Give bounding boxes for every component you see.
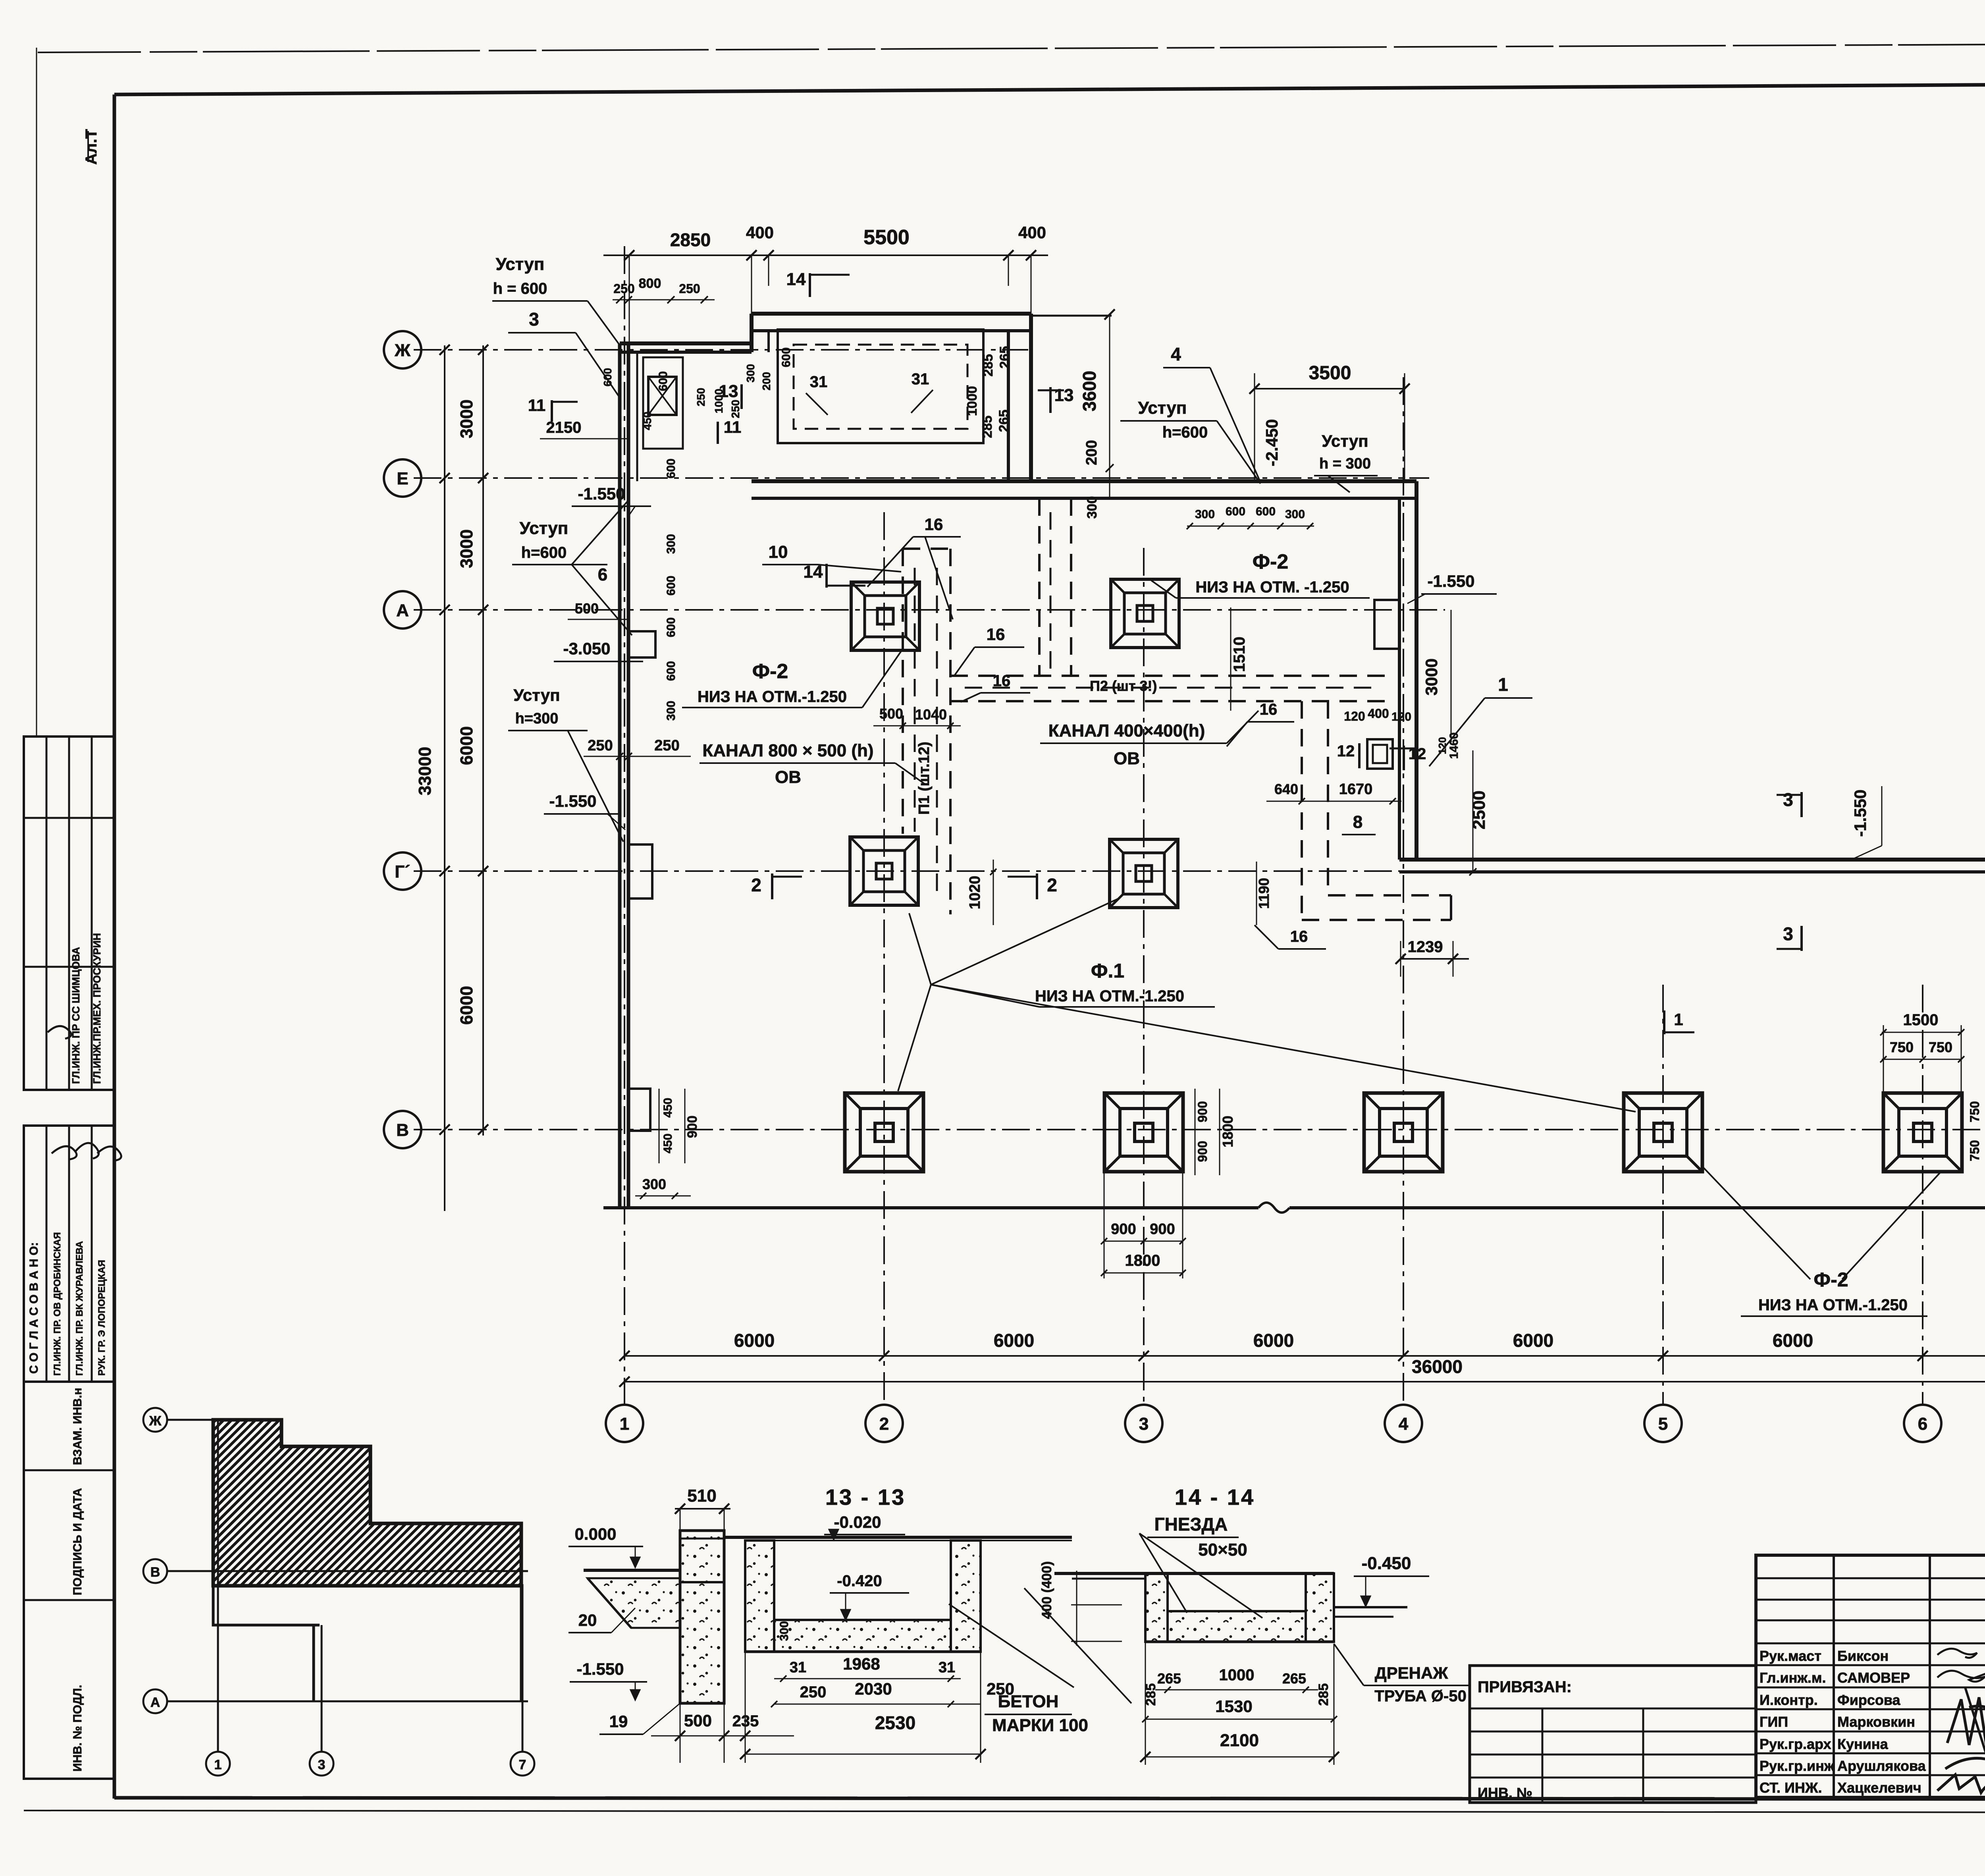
svg-text:НИЗ НА ОТМ.-1.250: НИЗ НА ОТМ.-1.250 (1035, 987, 1184, 1005)
svg-text:Хацкелевич: Хацкелевич (1837, 1780, 1921, 1796)
svg-text:Уступ: Уступ (513, 686, 560, 704)
svg-text:ГНЕЗДА: ГНЕЗДА (1154, 1514, 1228, 1535)
svg-text:640: 640 (1274, 781, 1298, 797)
svg-text:-0.420: -0.420 (837, 1572, 882, 1590)
svg-text:3: 3 (529, 309, 539, 330)
svg-text:А: А (150, 1695, 160, 1710)
svg-text:600: 600 (665, 576, 678, 596)
svg-text:10: 10 (769, 542, 788, 562)
svg-text:900: 900 (1195, 1141, 1210, 1162)
svg-text:3: 3 (1139, 1414, 1149, 1434)
svg-text:250: 250 (613, 281, 634, 296)
svg-text:РУК. ГР. Э ЛОПОРЕЦКАЯ: РУК. ГР. Э ЛОПОРЕЦКАЯ (96, 1260, 107, 1376)
svg-text:33000: 33000 (415, 747, 435, 795)
svg-text:В: В (150, 1565, 160, 1580)
svg-text:600: 600 (780, 347, 793, 367)
svg-text:6000: 6000 (1253, 1330, 1294, 1351)
svg-text:6: 6 (1918, 1414, 1927, 1434)
svg-text:250: 250 (588, 737, 613, 754)
svg-text:ГЛ.ИНЖ. ПР. ВК ЖУРАВЛЕВА: ГЛ.ИНЖ. ПР. ВК ЖУРАВЛЕВА (74, 1241, 85, 1376)
svg-text:500: 500 (879, 706, 903, 722)
svg-text:-0.020: -0.020 (834, 1513, 881, 1531)
svg-text:1800: 1800 (1220, 1116, 1236, 1147)
svg-text:11: 11 (528, 396, 545, 415)
svg-text:Кунина: Кунина (1837, 1736, 1889, 1752)
svg-text:6000: 6000 (457, 726, 476, 765)
svg-text:600: 600 (601, 368, 614, 387)
svg-text:600: 600 (665, 459, 678, 478)
svg-text:750: 750 (1968, 1101, 1982, 1122)
svg-text:285: 285 (1316, 1683, 1331, 1706)
svg-text:31: 31 (790, 1659, 806, 1676)
svg-text:265: 265 (1282, 1670, 1306, 1687)
svg-text:250: 250 (800, 1683, 827, 1701)
svg-text:7: 7 (519, 1757, 526, 1772)
svg-text:ПОДПИСЬ И ДАТА: ПОДПИСЬ И ДАТА (71, 1488, 84, 1595)
svg-text:САМОВЕР: САМОВЕР (1837, 1670, 1910, 1686)
svg-text:900: 900 (1195, 1101, 1210, 1122)
svg-text:120: 120 (1391, 710, 1411, 723)
svg-text:6000: 6000 (734, 1330, 775, 1351)
svg-text:4: 4 (1171, 344, 1181, 364)
svg-text:31: 31 (810, 373, 828, 391)
svg-text:КАНАЛ 800 × 500 (h): КАНАЛ 800 × 500 (h) (702, 741, 873, 760)
svg-text:НИЗ НА ОТМ.-1.250: НИЗ НА ОТМ.-1.250 (698, 688, 847, 706)
svg-text:h=600: h=600 (521, 544, 567, 561)
svg-text:ОВ: ОВ (775, 767, 801, 787)
svg-text:2: 2 (879, 1414, 889, 1434)
svg-text:Биксон: Биксон (1837, 1648, 1889, 1664)
svg-text:2030: 2030 (855, 1679, 892, 1698)
svg-text:200: 200 (1083, 440, 1100, 465)
svg-text:800: 800 (639, 276, 661, 291)
svg-text:3: 3 (318, 1757, 326, 1772)
svg-text:Уступ: Уступ (1138, 398, 1187, 418)
svg-text:750: 750 (1968, 1140, 1982, 1161)
svg-text:6000: 6000 (457, 986, 476, 1025)
svg-text:250: 250 (695, 388, 707, 407)
svg-text:265: 265 (996, 410, 1012, 432)
svg-text:13: 13 (1054, 386, 1074, 405)
svg-text:h = 300: h = 300 (1319, 455, 1371, 472)
svg-text:1020: 1020 (967, 876, 983, 910)
svg-text:300: 300 (778, 1621, 791, 1641)
svg-text:300: 300 (665, 701, 678, 721)
svg-text:5500: 5500 (863, 226, 910, 249)
svg-text:600: 600 (1226, 505, 1245, 518)
svg-text:12: 12 (1337, 742, 1355, 760)
svg-text:285: 285 (981, 354, 996, 377)
svg-text:31: 31 (912, 370, 929, 388)
svg-text:900: 900 (1111, 1221, 1136, 1238)
svg-text:1: 1 (1674, 1010, 1683, 1029)
svg-text:Уступ: Уступ (520, 519, 569, 538)
svg-text:Ж: Ж (149, 1413, 162, 1429)
svg-text:3600: 3600 (1079, 371, 1100, 411)
svg-text:300: 300 (665, 534, 678, 554)
svg-text:Фирсова: Фирсова (1837, 1692, 1901, 1708)
svg-text:19: 19 (609, 1712, 628, 1731)
svg-text:14 - 14: 14 - 14 (1175, 1485, 1255, 1510)
svg-text:Гл.инж.м.: Гл.инж.м. (1760, 1670, 1826, 1686)
svg-text:ГИП: ГИП (1760, 1714, 1788, 1730)
svg-text:-3.050: -3.050 (563, 639, 610, 658)
svg-text:300: 300 (1285, 508, 1305, 521)
svg-text:1: 1 (214, 1757, 222, 1772)
svg-text:1: 1 (1498, 674, 1508, 695)
svg-text:Уступ: Уступ (496, 255, 545, 274)
svg-text:6000: 6000 (1773, 1330, 1813, 1351)
svg-text:3: 3 (1783, 789, 1793, 810)
svg-text:6000: 6000 (994, 1330, 1034, 1351)
svg-text:ИНВ. № ПОДЛ.: ИНВ. № ПОДЛ. (71, 1685, 84, 1772)
svg-text:Ф-2: Ф-2 (1813, 1269, 1848, 1291)
svg-text:И.контр.: И.контр. (1760, 1692, 1818, 1708)
svg-text:5: 5 (1658, 1414, 1668, 1434)
svg-text:1000: 1000 (1219, 1666, 1255, 1684)
svg-text:Ф-2: Ф-2 (1253, 550, 1289, 573)
svg-text:ДРЕНАЖ: ДРЕНАЖ (1375, 1664, 1449, 1682)
svg-text:Ж: Ж (394, 341, 410, 360)
svg-text:2850: 2850 (670, 229, 711, 250)
svg-text:ТРУБА Ø-50: ТРУБА Ø-50 (1374, 1687, 1467, 1705)
svg-text:4: 4 (1399, 1414, 1409, 1434)
svg-text:600: 600 (665, 661, 678, 681)
svg-text:ИНВ. №: ИНВ. № (1478, 1785, 1532, 1801)
svg-text:400: 400 (746, 223, 774, 242)
svg-text:6000: 6000 (1513, 1330, 1553, 1351)
svg-text:1670: 1670 (1339, 781, 1373, 798)
svg-text:В: В (396, 1120, 409, 1140)
svg-text:Е: Е (397, 469, 408, 488)
svg-text:ГЛ.ИНЖ. ПР. ОВ ДРОБИНСКАЯ: ГЛ.ИНЖ. ПР. ОВ ДРОБИНСКАЯ (52, 1232, 63, 1376)
svg-text:300: 300 (1085, 496, 1100, 519)
svg-text:600: 600 (1256, 505, 1276, 518)
svg-text:Г´: Г´ (395, 862, 410, 881)
svg-text:1000: 1000 (965, 386, 980, 416)
svg-text:500: 500 (684, 1711, 712, 1730)
svg-text:120: 120 (1344, 709, 1365, 723)
svg-text:265: 265 (1157, 1670, 1181, 1687)
svg-text:БЕТОН: БЕТОН (998, 1692, 1059, 1711)
svg-text:500: 500 (575, 600, 599, 617)
svg-text:НИЗ НА ОТМ. -1.250: НИЗ НА ОТМ. -1.250 (1195, 578, 1349, 596)
svg-text:-1.550: -1.550 (1851, 789, 1869, 837)
svg-text:285: 285 (980, 416, 995, 438)
svg-text:МАРКИ 100: МАРКИ 100 (992, 1716, 1088, 1735)
svg-text:11: 11 (724, 418, 741, 436)
svg-text:НИЗ НА ОТМ.-1.250: НИЗ НА ОТМ.-1.250 (1758, 1296, 1908, 1314)
svg-text:А: А (396, 601, 409, 620)
svg-text:Рук.гр.арх: Рук.гр.арх (1760, 1736, 1831, 1752)
svg-text:510: 510 (687, 1486, 716, 1506)
svg-text:16: 16 (993, 672, 1011, 690)
svg-text:6: 6 (598, 565, 607, 584)
svg-text:16: 16 (925, 515, 943, 534)
svg-text:ПРИВЯЗАН:: ПРИВЯЗАН: (1478, 1678, 1572, 1696)
svg-text:-1.550: -1.550 (1427, 572, 1474, 590)
svg-text:ВЗАМ. ИНВ.н: ВЗАМ. ИНВ.н (71, 1388, 84, 1465)
svg-text:Арушлякова: Арушлякова (1837, 1758, 1926, 1774)
svg-text:1040: 1040 (915, 706, 947, 723)
svg-text:2500: 2500 (1469, 791, 1489, 829)
svg-text:-2.450: -2.450 (1262, 419, 1281, 466)
svg-text:36000: 36000 (1412, 1356, 1463, 1377)
svg-text:450: 450 (661, 1134, 675, 1153)
svg-text:3000: 3000 (1422, 658, 1441, 695)
svg-text:ГЛ.ИНЖ.ПР.МЕХ. ПРОСКУРИН: ГЛ.ИНЖ.ПР.МЕХ. ПРОСКУРИН (91, 933, 103, 1084)
svg-text:КАНАЛ 400×400(h): КАНАЛ 400×400(h) (1048, 721, 1205, 740)
svg-text:-1.550: -1.550 (549, 792, 596, 810)
svg-text:h=600: h=600 (1162, 424, 1208, 441)
svg-text:2530: 2530 (875, 1712, 915, 1733)
svg-text:300: 300 (744, 364, 757, 383)
svg-text:200: 200 (760, 372, 773, 391)
svg-text:h = 600: h = 600 (493, 280, 547, 297)
svg-text:20: 20 (578, 1611, 597, 1629)
svg-text:1968: 1968 (843, 1654, 880, 1673)
svg-text:900: 900 (685, 1116, 700, 1138)
svg-text:16: 16 (1260, 701, 1278, 718)
svg-text:400: 400 (1368, 706, 1389, 721)
svg-text:Рук.гр.инж: Рук.гр.инж (1760, 1758, 1835, 1774)
svg-text:450: 450 (641, 412, 653, 430)
svg-text:1239: 1239 (1408, 938, 1443, 956)
svg-text:СТ. ИНЖ.: СТ. ИНЖ. (1760, 1780, 1822, 1796)
svg-text:250: 250 (679, 281, 700, 296)
svg-text:3000: 3000 (457, 529, 476, 568)
svg-text:-1.550: -1.550 (578, 484, 625, 503)
svg-text:600: 600 (665, 617, 678, 637)
svg-text:Ф-2: Ф-2 (752, 660, 788, 683)
svg-text:750: 750 (1890, 1039, 1914, 1055)
svg-text:3000: 3000 (457, 399, 476, 438)
svg-text:400 (400): 400 (400) (1039, 1561, 1054, 1619)
svg-text:Ал.Т: Ал.Т (83, 129, 100, 165)
svg-text:Уступ: Уступ (1322, 432, 1368, 450)
svg-text:250: 250 (654, 737, 679, 754)
svg-text:-1.550: -1.550 (576, 1660, 624, 1678)
svg-text:Рук.маст: Рук.маст (1760, 1648, 1821, 1664)
svg-text:16: 16 (987, 625, 1005, 644)
svg-text:300: 300 (1195, 508, 1215, 521)
svg-text:31: 31 (939, 1659, 955, 1676)
svg-text:1190: 1190 (1256, 878, 1272, 909)
svg-text:h=300: h=300 (515, 710, 559, 727)
svg-text:2: 2 (751, 875, 761, 895)
svg-text:3: 3 (1783, 924, 1793, 944)
svg-text:С О Г Л А С О В А Н О:: С О Г Л А С О В А Н О: (27, 1242, 40, 1374)
svg-text:14: 14 (786, 270, 806, 289)
svg-text:600: 600 (657, 371, 670, 391)
svg-text:2100: 2100 (1220, 1731, 1259, 1750)
svg-text:300: 300 (642, 1176, 666, 1192)
svg-text:400: 400 (1018, 223, 1046, 242)
svg-text:1530: 1530 (1215, 1697, 1252, 1716)
svg-text:1800: 1800 (1125, 1252, 1160, 1269)
svg-text:-0.450: -0.450 (1362, 1554, 1411, 1573)
svg-text:13 - 13: 13 - 13 (825, 1485, 906, 1510)
svg-text:2: 2 (1047, 875, 1057, 895)
svg-text:1500: 1500 (1903, 1011, 1939, 1029)
svg-text:1: 1 (620, 1414, 629, 1434)
svg-text:8: 8 (1353, 812, 1363, 832)
svg-text:Ф.1: Ф.1 (1091, 960, 1124, 982)
svg-text:16: 16 (1290, 928, 1308, 945)
svg-text:900: 900 (1150, 1221, 1175, 1238)
svg-text:265: 265 (997, 346, 1012, 369)
svg-text:50×50: 50×50 (1198, 1540, 1247, 1560)
svg-text:0.000: 0.000 (574, 1525, 616, 1543)
svg-text:250: 250 (729, 400, 742, 418)
svg-text:3500: 3500 (1309, 362, 1351, 384)
svg-text:13: 13 (719, 382, 738, 401)
svg-text:П2 (шт 3!): П2 (шт 3!) (1090, 678, 1157, 694)
svg-text:П1 (шт.12): П1 (шт.12) (916, 742, 933, 815)
svg-text:750: 750 (1929, 1039, 1952, 1055)
svg-text:ОВ: ОВ (1114, 749, 1140, 768)
svg-text:Марковкин: Марковкин (1837, 1714, 1915, 1730)
svg-text:1510: 1510 (1231, 637, 1248, 672)
svg-text:450: 450 (661, 1098, 675, 1118)
